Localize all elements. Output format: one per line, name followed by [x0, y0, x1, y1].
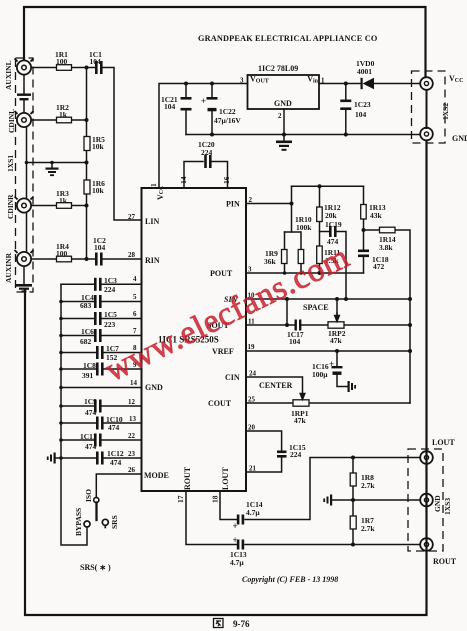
- svg-text:AUXINR: AUXINR: [4, 252, 13, 283]
- svg-text:COUT: COUT: [208, 399, 232, 408]
- svg-text:LIN: LIN: [145, 217, 159, 226]
- svg-text:104: 104: [289, 337, 301, 346]
- svg-text:474: 474: [85, 408, 97, 417]
- svg-text:224: 224: [290, 450, 302, 459]
- svg-text:GRANDPEAK ELECTRICAL APPLIANCE: GRANDPEAK ELECTRICAL APPLIANCE CO: [198, 34, 378, 43]
- svg-text:25: 25: [248, 396, 256, 404]
- svg-text:13: 13: [129, 415, 137, 423]
- svg-text:28: 28: [128, 251, 136, 259]
- svg-text:SRS: SRS: [110, 515, 119, 529]
- svg-text:10k: 10k: [92, 142, 105, 151]
- svg-text:21: 21: [249, 465, 257, 473]
- svg-text:ISO: ISO: [84, 489, 93, 502]
- svg-text:ROUT: ROUT: [433, 557, 457, 566]
- svg-text:100k: 100k: [296, 223, 312, 232]
- svg-text:6: 6: [133, 310, 137, 318]
- svg-text:LOUT: LOUT: [221, 467, 230, 490]
- svg-text:1XS1: 1XS1: [6, 155, 15, 172]
- svg-text:27: 27: [128, 213, 136, 221]
- svg-text:224: 224: [201, 148, 213, 157]
- svg-text:+: +: [329, 359, 334, 369]
- svg-text:20k: 20k: [325, 211, 338, 220]
- svg-text:GND: GND: [452, 134, 467, 143]
- svg-text:+: +: [201, 96, 206, 106]
- svg-text:43k: 43k: [370, 211, 383, 220]
- svg-text:1XS3: 1XS3: [443, 498, 452, 515]
- svg-text:16: 16: [222, 176, 231, 184]
- svg-text:100: 100: [56, 57, 68, 66]
- svg-text:14: 14: [179, 176, 188, 184]
- svg-text:20: 20: [248, 424, 256, 432]
- svg-text:7: 7: [133, 327, 137, 335]
- svg-text:BYPASS: BYPASS: [74, 508, 83, 536]
- svg-text:3: 3: [248, 266, 252, 274]
- svg-text:1C12: 1C12: [107, 449, 124, 458]
- svg-text:GND: GND: [145, 383, 163, 392]
- svg-text:36k: 36k: [264, 257, 277, 266]
- svg-text:MODE: MODE: [144, 471, 169, 480]
- svg-text:4: 4: [133, 275, 137, 283]
- svg-text:472: 472: [373, 262, 385, 271]
- svg-text:1XS2: 1XS2: [441, 103, 450, 120]
- svg-text:26: 26: [128, 466, 136, 474]
- svg-text:CENTER: CENTER: [259, 381, 293, 390]
- svg-text:223: 223: [104, 320, 116, 329]
- svg-text:POUT: POUT: [210, 269, 233, 278]
- svg-text:1C5: 1C5: [104, 310, 117, 319]
- svg-text:1IC2 78L09: 1IC2 78L09: [258, 64, 298, 73]
- svg-text:474: 474: [85, 442, 97, 451]
- svg-text:GND: GND: [274, 99, 292, 108]
- svg-text:18: 18: [211, 495, 220, 503]
- svg-text:CDINL: CDINL: [7, 109, 16, 133]
- svg-text:1C9: 1C9: [84, 397, 97, 406]
- svg-text:1C6: 1C6: [81, 327, 94, 336]
- svg-text:104: 104: [90, 57, 102, 66]
- svg-text:1k: 1k: [59, 196, 68, 205]
- svg-text:4.7μ: 4.7μ: [230, 558, 244, 567]
- svg-text:100: 100: [56, 249, 68, 258]
- svg-text:4.7μ: 4.7μ: [246, 508, 260, 517]
- svg-text:LOUT: LOUT: [432, 438, 455, 447]
- svg-text:2: 2: [278, 112, 282, 120]
- svg-text:1C23: 1C23: [354, 100, 371, 109]
- svg-text:3: 3: [240, 77, 244, 85]
- svg-text:1: 1: [321, 77, 325, 85]
- svg-text:19: 19: [248, 343, 256, 351]
- svg-text:391: 391: [82, 371, 94, 380]
- svg-text:1C19: 1C19: [325, 220, 342, 229]
- svg-text:4001: 4001: [357, 67, 372, 76]
- svg-text:Copyright (C) FEB - 13 1998: Copyright (C) FEB - 13 1998: [242, 575, 338, 584]
- svg-text:474: 474: [110, 458, 122, 467]
- svg-text:SPACE: SPACE: [303, 303, 329, 312]
- svg-text:1C8: 1C8: [83, 361, 96, 370]
- svg-text:2.7k: 2.7k: [361, 481, 375, 490]
- svg-text:10k: 10k: [92, 186, 105, 195]
- svg-text:12: 12: [128, 398, 136, 406]
- svg-text:5: 5: [133, 293, 137, 301]
- svg-text:RIN: RIN: [145, 256, 160, 265]
- svg-text:104: 104: [355, 110, 367, 119]
- svg-text:9-76: 9-76: [233, 619, 250, 629]
- svg-text:22: 22: [128, 432, 136, 440]
- svg-text:1C11: 1C11: [80, 432, 97, 441]
- svg-text:VREF: VREF: [212, 347, 234, 356]
- svg-text:2.7k: 2.7k: [361, 524, 375, 533]
- svg-text:CDINR: CDINR: [6, 194, 15, 219]
- svg-text:47μ/16V: 47μ/16V: [214, 116, 241, 125]
- svg-text:1C3: 1C3: [104, 276, 117, 285]
- svg-text:1: 1: [149, 183, 158, 187]
- svg-text:2: 2: [249, 196, 253, 204]
- svg-text:24: 24: [249, 370, 257, 378]
- svg-text:+: +: [233, 521, 238, 531]
- svg-text:GND: GND: [433, 495, 442, 512]
- svg-text:104: 104: [164, 102, 176, 111]
- svg-text:17: 17: [176, 495, 185, 503]
- svg-text:1C22: 1C22: [219, 107, 236, 116]
- svg-text:100μ: 100μ: [312, 370, 328, 379]
- svg-text:682: 682: [80, 337, 92, 346]
- svg-text:224: 224: [104, 285, 116, 294]
- svg-text:1k: 1k: [59, 110, 68, 119]
- svg-text:CIN: CIN: [225, 373, 240, 382]
- svg-text:SRS( ∗ ): SRS( ∗ ): [80, 563, 111, 572]
- svg-text:683: 683: [80, 301, 92, 310]
- svg-text:23: 23: [128, 450, 136, 458]
- svg-text:PIN: PIN: [226, 200, 240, 209]
- svg-text:AUXINL: AUXINL: [4, 60, 13, 90]
- svg-text:ROUT: ROUT: [183, 466, 192, 490]
- svg-text:47k: 47k: [294, 416, 307, 425]
- svg-text:474: 474: [108, 423, 120, 432]
- svg-text:47k: 47k: [330, 336, 343, 345]
- svg-text:+: +: [233, 535, 238, 545]
- svg-text:104: 104: [94, 243, 106, 252]
- svg-text:3.8k: 3.8k: [379, 243, 393, 252]
